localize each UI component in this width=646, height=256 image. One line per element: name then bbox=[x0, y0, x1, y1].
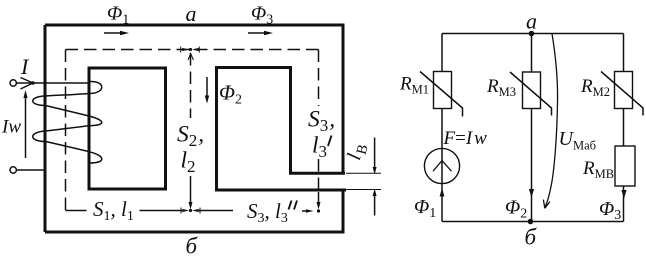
right branch wire bbox=[623, 34, 625, 222]
svg-text:F=Iw: F=Iw bbox=[443, 128, 488, 149]
terminal bottom bbox=[10, 167, 16, 173]
svg-text:б: б bbox=[186, 234, 199, 256]
reluctance R_M3 box bbox=[523, 72, 541, 109]
top wire bbox=[442, 33, 624, 35]
svg-text:б: б bbox=[525, 225, 538, 250]
flux Phi2 arrow (center leg) bbox=[206, 77, 208, 96]
bottom right junction arrows bbox=[302, 192, 321, 213]
air gap dimension arrows lB bbox=[374, 138, 376, 216]
air gap top edge bbox=[289, 172, 345, 175]
mmf source F circle bbox=[424, 148, 459, 183]
svg-text:a: a bbox=[186, 1, 197, 26]
mmf source chevron bbox=[433, 161, 452, 172]
node a junction arrows (top) bbox=[181, 47, 200, 61]
core left window bbox=[89, 68, 166, 189]
node b dot bbox=[528, 219, 534, 225]
node a dot bbox=[529, 31, 535, 37]
middle branch wire bbox=[531, 34, 533, 222]
current I arrow bbox=[21, 78, 34, 90]
prime mark of l3 bbox=[328, 136, 332, 147]
R_M2 nonlinear diagonal bbox=[601, 72, 643, 116]
U_Mab curved arrow bbox=[545, 34, 557, 207]
flux arrow down on middle branch bbox=[529, 189, 534, 198]
reluctance R_M2 box bbox=[615, 72, 633, 109]
core right window bbox=[215, 68, 346, 191]
bottom center junction arrows bbox=[181, 178, 200, 214]
double prime marks of l3 bbox=[289, 201, 298, 210]
flux Phi3 arrow (top right) bbox=[248, 32, 266, 34]
air gap dimension extension lines bbox=[346, 173, 381, 189]
coil winding bbox=[33, 81, 102, 163]
flux arrow down on right branch bbox=[621, 190, 626, 199]
svg-text:a: a bbox=[526, 9, 537, 34]
mean path center leg dashed bbox=[190, 53, 192, 178]
reluctance R_M1 box bbox=[434, 72, 452, 109]
flux Phi1 arrow (top left) bbox=[104, 32, 122, 34]
R_M3 nonlinear diagonal bbox=[510, 72, 552, 116]
svg-text:Iw: Iw bbox=[1, 117, 21, 138]
left branch wire bbox=[441, 34, 443, 222]
core outer outline bbox=[45, 24, 343, 234]
flux arrow up on left branch bbox=[440, 188, 445, 197]
bottom wire bbox=[442, 221, 624, 223]
terminal top bbox=[10, 80, 16, 86]
R_M1 nonlinear diagonal bbox=[420, 72, 463, 117]
mean path dashed loop bbox=[66, 50, 319, 211]
Iw arrow bbox=[25, 97, 27, 158]
reluctance R_MB box bbox=[615, 146, 635, 186]
